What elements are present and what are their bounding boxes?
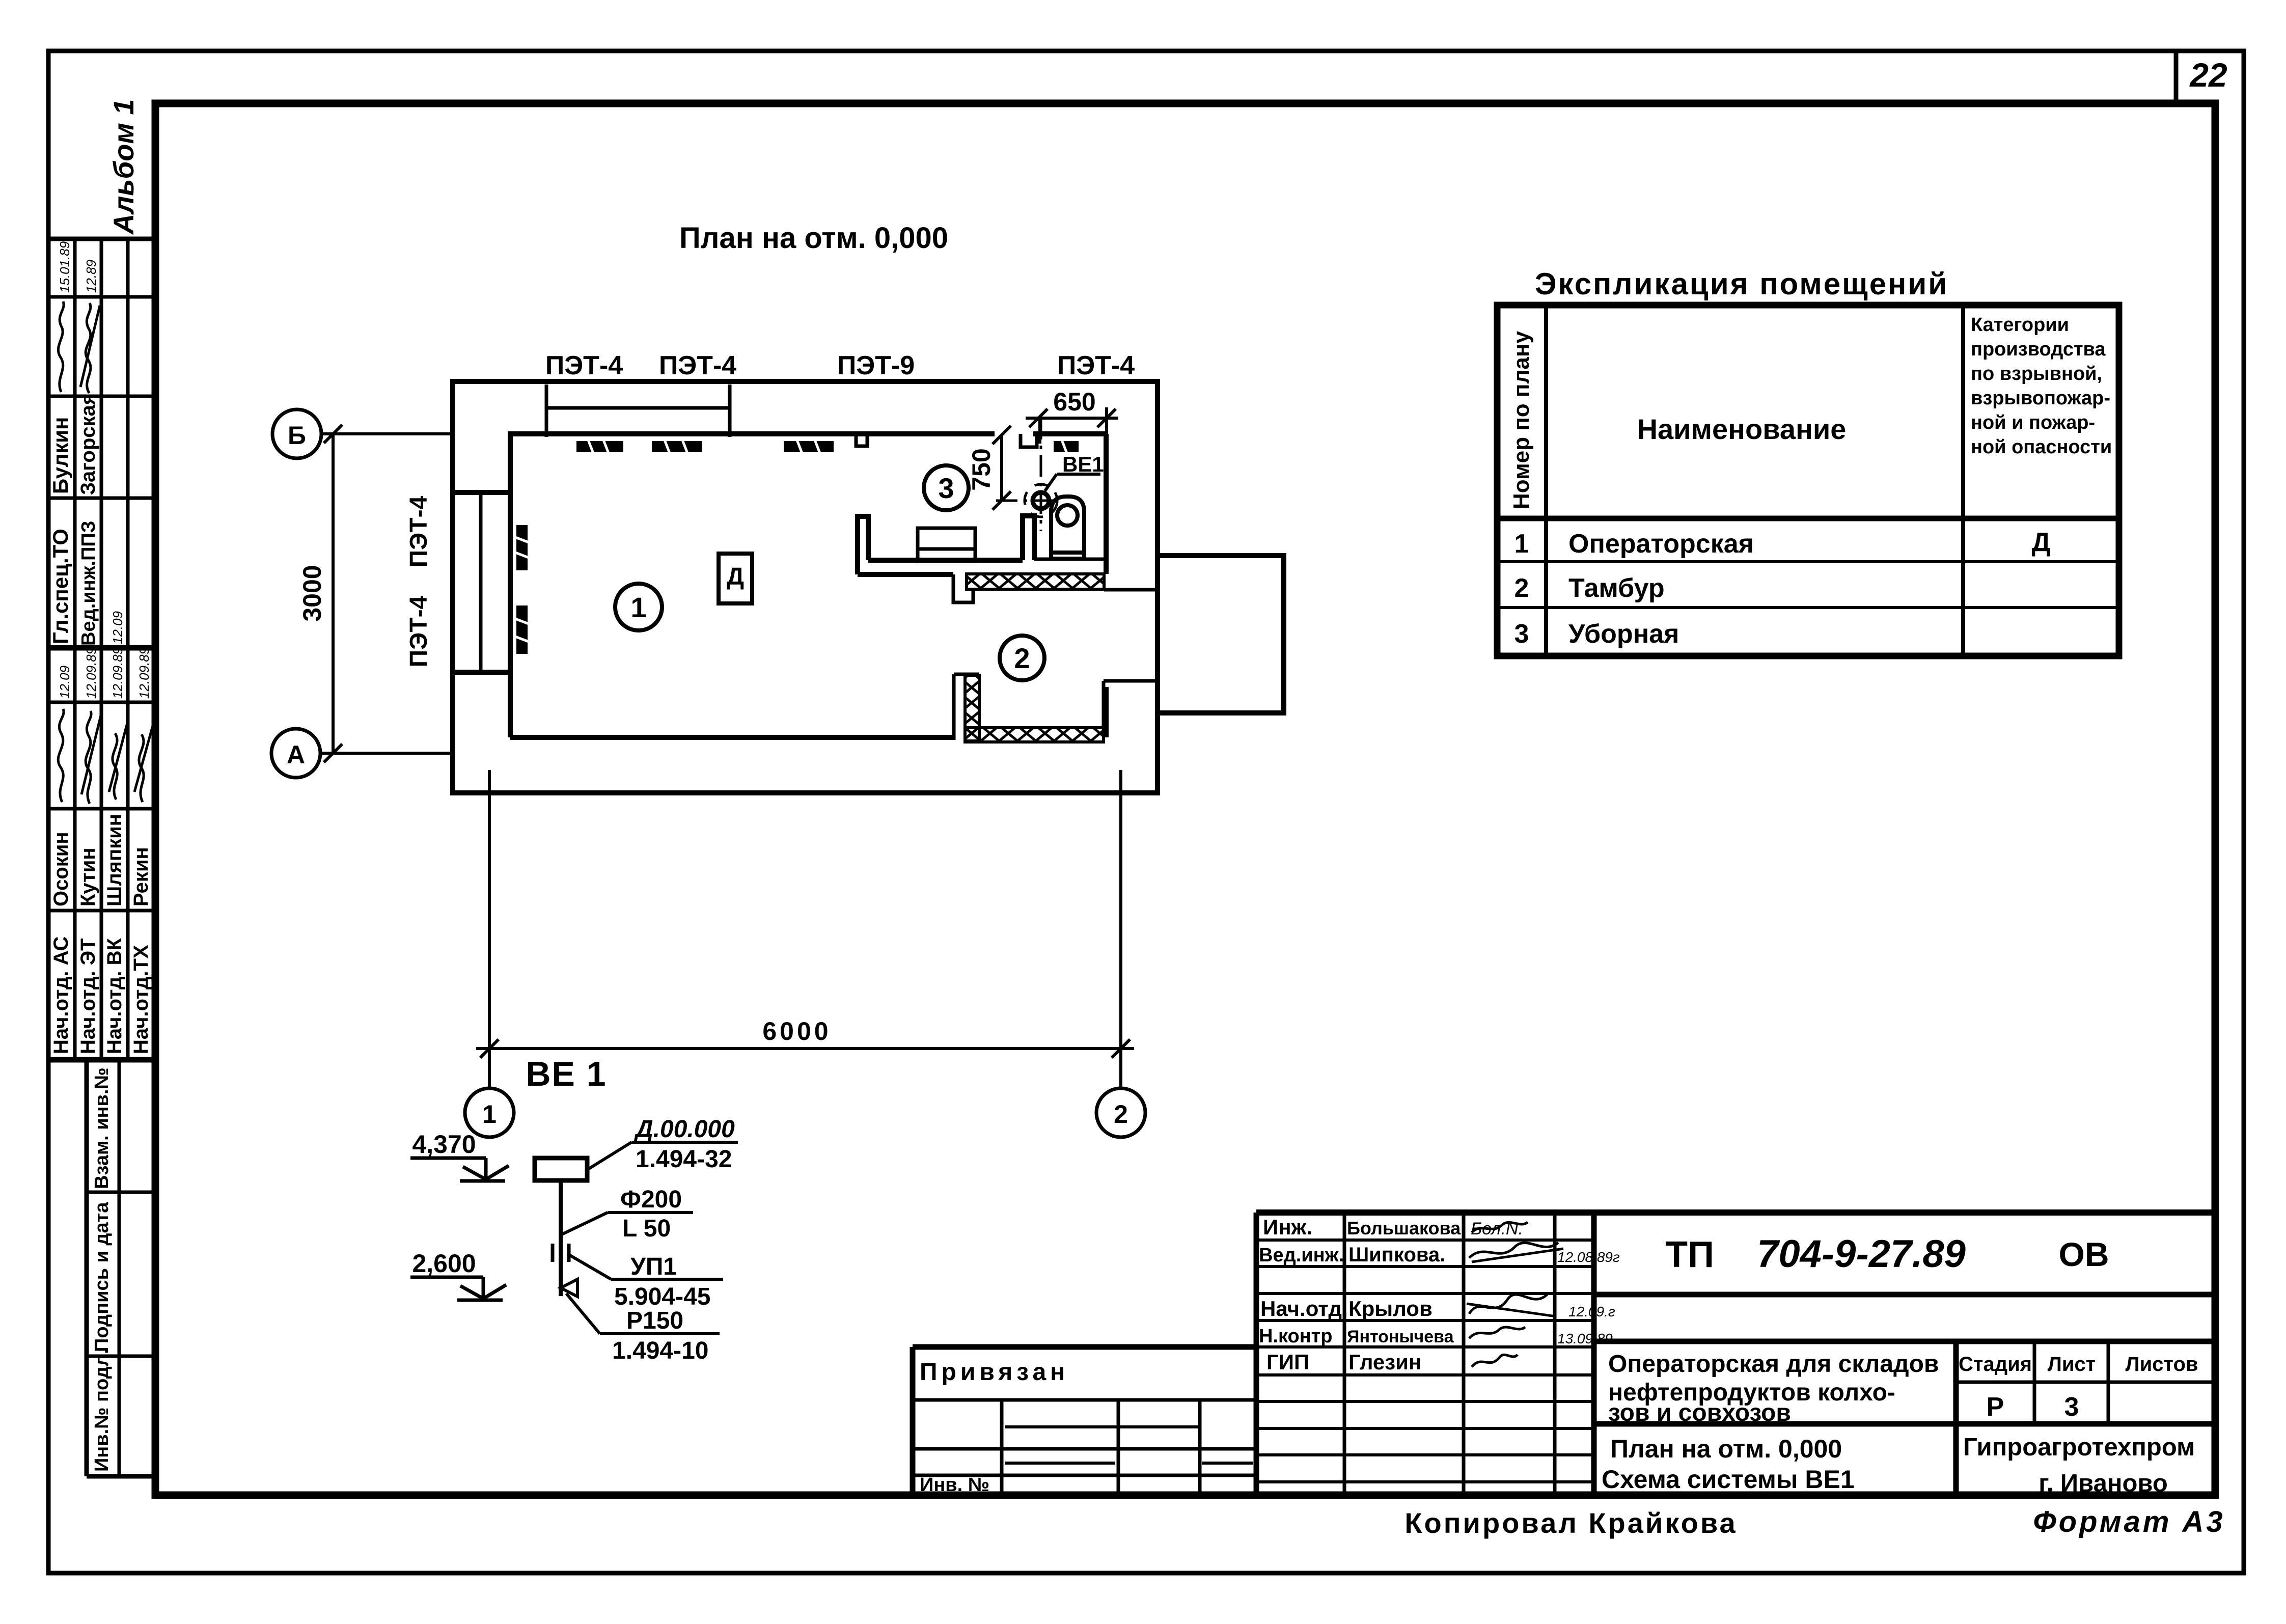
svg-text:12.09: 12.09 xyxy=(57,666,72,699)
svg-text:12.09: 12.09 xyxy=(110,611,125,644)
svg-text:3000: 3000 xyxy=(298,565,326,621)
svg-text:Гипроагротехпром: Гипроагротехпром xyxy=(1963,1434,2195,1461)
svg-text:13.09.89: 13.09.89 xyxy=(1557,1331,1613,1346)
jamb extension line right xyxy=(1104,588,1158,592)
svg-text:12.09.89: 12.09.89 xyxy=(84,647,99,699)
svg-text:ной опасности: ной опасности xyxy=(1971,436,2112,458)
svg-text:ВЕ 1: ВЕ 1 xyxy=(526,1055,607,1093)
dim 650 xyxy=(1026,407,1118,444)
svg-text:Шляпкин: Шляпкин xyxy=(103,814,126,906)
svg-text:ПЭТ-4: ПЭТ-4 xyxy=(545,351,623,380)
lower stamp texts xyxy=(50,647,152,1054)
svg-text:12.89: 12.89 xyxy=(84,260,99,293)
sink xyxy=(918,528,975,561)
svg-text:Вед.инж.ППЗ: Вед.инж.ППЗ xyxy=(78,521,99,646)
axis А xyxy=(271,729,320,778)
svg-text:1.494-32: 1.494-32 xyxy=(636,1146,732,1173)
svg-text:Операторская: Операторская xyxy=(1568,529,1754,559)
axis 1 xyxy=(488,770,491,1088)
svg-text:План на отм. 0,000: План на отм. 0,000 xyxy=(1610,1435,1842,1463)
dim 3000 xyxy=(324,425,342,762)
svg-text:Рекин: Рекин xyxy=(130,847,152,906)
svg-text:2: 2 xyxy=(1114,1100,1128,1128)
svg-text:взрывопожар-: взрывопожар- xyxy=(1971,388,2110,409)
duct line xyxy=(559,1180,563,1296)
svg-text:Стадия: Стадия xyxy=(1959,1353,2032,1375)
svg-text:1: 1 xyxy=(482,1100,497,1128)
svg-text:704-9-27.89: 704-9-27.89 xyxy=(1757,1232,1966,1276)
svg-text:Листов: Листов xyxy=(2126,1353,2198,1375)
sheet number box divider xyxy=(2174,51,2179,103)
svg-text:Булкин: Булкин xyxy=(48,417,72,494)
callout 3 xyxy=(567,1254,723,1279)
svg-text:ОВ: ОВ xyxy=(2059,1235,2109,1273)
lower signatures xyxy=(58,709,154,804)
lower frame columns xyxy=(85,1060,89,1476)
door jamb marks on top wall xyxy=(856,434,867,446)
svg-text:Инв. №: Инв. № xyxy=(920,1474,989,1496)
callout 1 xyxy=(587,1142,738,1170)
room 2 partition thin line xyxy=(952,674,956,740)
svg-text:Привязан: Привязан xyxy=(920,1359,1069,1386)
window labels left xyxy=(405,496,432,667)
svg-text:Р: Р xyxy=(1987,1392,2004,1422)
svg-text:3: 3 xyxy=(1514,619,1529,649)
svg-text:Шипкова.: Шипкова. xyxy=(1348,1244,1445,1266)
wall line under toilet xyxy=(1034,558,1106,561)
svg-text:Глезин: Глезин xyxy=(1348,1350,1421,1374)
svg-text:по взрывной,: по взрывной, xyxy=(1971,363,2102,384)
explication table frame xyxy=(1497,305,2119,656)
step tab xyxy=(953,574,973,602)
svg-text:Экспликация помещений: Экспликация помещений xyxy=(1535,267,1948,301)
inner right wall lower segment xyxy=(1104,687,1109,737)
room 3 bottom wall outer line xyxy=(858,572,953,577)
svg-text:зов и совхозов: зов и совхозов xyxy=(1608,1399,1791,1426)
signature table verticals xyxy=(1254,1213,1259,1495)
room 3 right door stub xyxy=(1023,516,1034,560)
top wall window band xyxy=(546,406,730,410)
svg-text:Операторская для складов: Операторская для складов xyxy=(1608,1351,1939,1378)
signature table texts xyxy=(1259,1215,1461,1374)
room number circles xyxy=(615,465,1044,680)
svg-text:Инв.№ подл.: Инв.№ подл. xyxy=(91,1348,113,1472)
name cell divider xyxy=(1953,1341,1959,1495)
stage columns xyxy=(2033,1341,2036,1424)
svg-text:2: 2 xyxy=(1014,642,1030,674)
grille triangle xyxy=(561,1279,577,1297)
svg-text:Д.00.000: Д.00.000 xyxy=(634,1116,735,1143)
svg-text:Янтонычева: Янтонычева xyxy=(1347,1327,1454,1346)
svg-text:ной и пожар-: ной и пожар- xyxy=(1971,412,2095,433)
svg-text:Р150: Р150 xyxy=(626,1307,683,1334)
svg-text:Д: Д xyxy=(727,563,744,590)
svg-text:3: 3 xyxy=(938,472,954,504)
svg-text:Вед.инж.: Вед.инж. xyxy=(1259,1245,1344,1266)
svg-text:Нач.отд. ВК: Нач.отд. ВК xyxy=(103,938,126,1054)
svg-text:ВЕ1: ВЕ1 xyxy=(1062,452,1104,476)
left attach table xyxy=(913,1344,1256,1350)
svg-text:L 50: L 50 xyxy=(622,1215,671,1242)
dim 6000 xyxy=(476,1039,1134,1058)
svg-text:План на отм. 0,000: План на отм. 0,000 xyxy=(679,222,948,255)
svg-text:750: 750 xyxy=(967,448,996,490)
svg-text:12.08.89г: 12.08.89г xyxy=(1557,1249,1620,1265)
svg-text:1: 1 xyxy=(630,591,646,623)
svg-text:Нач.отд.ТХ: Нач.отд.ТХ xyxy=(130,945,152,1054)
svg-text:ПЭТ-4: ПЭТ-4 xyxy=(405,496,432,567)
svg-text:ПЭТ-4: ПЭТ-4 xyxy=(659,351,736,380)
svg-text:15.01.89: 15.01.89 xyxy=(57,241,72,293)
svg-text:Д: Д xyxy=(2031,528,2050,557)
svg-text:ТП: ТП xyxy=(1665,1234,1714,1275)
svg-text:А: А xyxy=(287,740,305,769)
svg-text:ГИП: ГИП xyxy=(1266,1350,1309,1374)
inner frame xyxy=(155,103,2215,1495)
stove box xyxy=(719,554,752,603)
svg-text:Осокин: Осокин xyxy=(50,832,72,906)
svg-text:Ф200: Ф200 xyxy=(620,1186,682,1213)
svg-text:650: 650 xyxy=(1053,388,1095,416)
svg-text:Лист: Лист xyxy=(2048,1353,2096,1375)
hatched partition room 2 vertical xyxy=(965,675,979,741)
porch xyxy=(1158,556,1284,713)
svg-text:Большакова: Большакова xyxy=(1347,1218,1461,1238)
svg-text:Кутин: Кутин xyxy=(77,848,99,907)
signature table rows xyxy=(1256,1238,1594,1242)
svg-text:Категории: Категории xyxy=(1971,314,2069,336)
svg-text:Нач.отд. АС: Нач.отд. АС xyxy=(50,937,72,1054)
axis Б xyxy=(272,409,321,458)
hatched partition room 3 xyxy=(965,574,1104,742)
svg-text:Уборная: Уборная xyxy=(1568,619,1679,649)
svg-text:Гл.спец.ТО: Гл.спец.ТО xyxy=(48,529,72,644)
svg-text:Подпись и дата: Подпись и дата xyxy=(91,1202,113,1352)
window labels top xyxy=(545,351,1135,380)
toilet xyxy=(1051,497,1084,559)
svg-text:Копировал Крайкова: Копировал Крайкова xyxy=(1404,1507,1737,1539)
axis 2 xyxy=(1119,770,1122,1088)
inner bottom wall line xyxy=(510,735,954,740)
building outer wall xyxy=(453,381,1158,793)
svg-text:Тамбур: Тамбур xyxy=(1568,573,1665,603)
hatched partition room 2 horizontal xyxy=(965,728,1104,742)
building inner wall outline xyxy=(510,434,995,737)
deflector xyxy=(535,1158,587,1180)
svg-text:22: 22 xyxy=(2189,56,2227,94)
rows xyxy=(1514,528,2051,649)
svg-text:3: 3 xyxy=(2064,1392,2079,1422)
title block top line xyxy=(1256,1209,2215,1216)
svg-text:Альбом 1: Альбом 1 xyxy=(107,99,140,235)
inner right wall upper segment xyxy=(1104,434,1109,574)
svg-text:ПЭТ-4: ПЭТ-4 xyxy=(1057,351,1135,380)
svg-text:6000: 6000 xyxy=(762,1017,831,1045)
callout 4 xyxy=(566,1293,720,1334)
svg-text:Нач.отд. ЭТ: Нач.отд. ЭТ xyxy=(77,939,99,1054)
svg-text:2,600: 2,600 xyxy=(412,1249,476,1278)
svg-text:12.09.89: 12.09.89 xyxy=(136,647,152,699)
svg-text:Инж.: Инж. xyxy=(1263,1215,1312,1239)
left wall window recess xyxy=(453,490,510,495)
frame column labels xyxy=(91,1067,113,1472)
svg-text:г. Иваново: г. Иваново xyxy=(2039,1470,2168,1497)
svg-text:Бол.N.: Бол.N. xyxy=(1471,1219,1523,1238)
svg-text:Н.контр: Н.контр xyxy=(1259,1326,1333,1347)
heaters top wall xyxy=(516,441,1079,654)
svg-text:4,370: 4,370 xyxy=(412,1130,476,1159)
svg-text:Взам. инв.№: Взам. инв.№ xyxy=(91,1067,113,1189)
svg-text:УП1: УП1 xyxy=(630,1253,677,1280)
name cell text xyxy=(1608,1351,1939,1426)
upper stamp texts xyxy=(48,241,125,646)
УП1 mark xyxy=(551,1244,555,1262)
svg-text:Крылов: Крылов xyxy=(1348,1297,1433,1320)
room 3 left wall stub xyxy=(858,516,868,574)
svg-text:ПЭТ-4: ПЭТ-4 xyxy=(405,595,432,667)
svg-text:Наименование: Наименование xyxy=(1637,413,1847,445)
svg-text:2: 2 xyxy=(1514,573,1529,603)
svg-text:5.904-45: 5.904-45 xyxy=(614,1283,711,1310)
svg-text:производства: производства xyxy=(1971,339,2106,360)
svg-text:Схема системы ВЕ1: Схема системы ВЕ1 xyxy=(1602,1465,1855,1494)
svg-text:ПЭТ-9: ПЭТ-9 xyxy=(837,351,915,380)
svg-text:Б: Б xyxy=(288,421,306,450)
svg-text:1.494-10: 1.494-10 xyxy=(612,1337,709,1364)
svg-text:12.09.г: 12.09.г xyxy=(1568,1304,1615,1319)
fan BE1 symbol xyxy=(996,418,1057,531)
svg-text:Формат А3: Формат А3 xyxy=(2033,1505,2225,1538)
svg-text:1: 1 xyxy=(1514,529,1529,559)
lower stamp table xyxy=(50,701,155,704)
callout 2 xyxy=(562,1213,693,1234)
upper signatures xyxy=(58,301,100,393)
svg-text:Загорская: Загорская xyxy=(77,393,99,495)
stage header xyxy=(1959,1353,2198,1375)
dim 750 xyxy=(993,426,1011,510)
project number cell xyxy=(1594,1292,2215,1298)
svg-text:Нач.отд.: Нач.отд. xyxy=(1260,1297,1348,1320)
svg-text:Номер по плану: Номер по плану xyxy=(1509,331,1534,509)
svg-text:12.09.89: 12.09.89 xyxy=(110,647,125,699)
signatures in middle column xyxy=(1467,1219,1563,1367)
room 3 bottom wall inner line xyxy=(868,558,1023,563)
drawing name xyxy=(1602,1435,1855,1494)
room 2 right jamb line xyxy=(1104,679,1158,683)
upper stamp table xyxy=(50,237,155,241)
